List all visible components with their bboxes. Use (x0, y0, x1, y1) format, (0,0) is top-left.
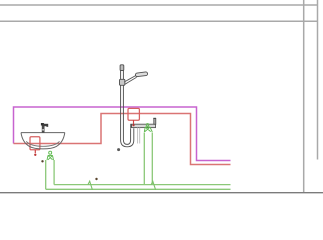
wall line top 2 (0, 20, 318, 22)
wall line right inner (303, 0, 305, 193)
slope tick 1 (88, 181, 93, 190)
wall line right outer (317, 0, 319, 160)
sink faucet (41, 123, 48, 133)
cold water pipe magenta (14, 107, 231, 161)
shower head (135, 72, 148, 77)
shower valve dot (132, 124, 134, 126)
drain pipe horizontal top line (54, 184, 230, 186)
sink bowl (21, 133, 65, 149)
sink drain riser (46, 160, 54, 189)
olive dot near sink (41, 160, 43, 162)
shower handle (124, 76, 136, 85)
shower bracket (120, 79, 125, 85)
drain pipe horizontal bottom line (46, 188, 231, 190)
wall line top 1 (0, 4, 318, 6)
mixer post (154, 118, 156, 124)
support below bar (138, 128, 140, 144)
shower hose loop (121, 128, 134, 147)
hose end cap dot (117, 148, 120, 151)
slope tick 2 (151, 181, 156, 190)
sink valve dot (34, 154, 36, 156)
shower rail knob (120, 65, 124, 71)
sink valve box (30, 137, 40, 150)
floor line (0, 192, 323, 194)
shower valve stem (133, 120, 135, 124)
shower drain riser (144, 133, 152, 185)
shower rail (121, 71, 124, 140)
sink inner line (26, 141, 59, 146)
mixer bar (131, 124, 156, 127)
hot water pipe red (14, 114, 231, 165)
shower valve box (128, 108, 139, 120)
sink valve drop (34, 150, 36, 153)
sink drain trap symbol (47, 151, 54, 160)
shower drain trap symbol (144, 124, 152, 132)
olive dot bottom center (95, 178, 97, 180)
